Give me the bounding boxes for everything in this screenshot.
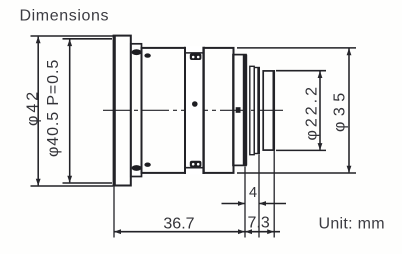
- ext vertical ring B face: [258, 155, 260, 238]
- main barrel (phi35 body): [142, 48, 234, 173]
- ext line phi42 top: [31, 35, 114, 37]
- ring B thick right edge: [257, 68, 260, 154]
- svg-text:φ35: φ35: [332, 87, 349, 132]
- ext line phi35 bottom: [237, 172, 356, 174]
- dim line 36.7 / 7.3: [114, 231, 280, 233]
- flange thick right edge: [243, 55, 247, 166]
- set screw S1 bottom: [132, 165, 142, 171]
- lens front rim (phi42 barrel): [114, 36, 131, 186]
- svg-text:φ42: φ42: [25, 89, 42, 126]
- set screw S2 bottom: [144, 163, 150, 167]
- C-mount thread barrel (phi22.2): [263, 71, 274, 150]
- focus ring (phi40.5 section): [131, 44, 142, 177]
- thread thick right edge: [273, 71, 275, 150]
- pin dot near slot: [192, 101, 198, 107]
- ext vertical flange face: [244, 167, 246, 238]
- svg-text:4: 4: [249, 185, 257, 201]
- set screw S2 top: [144, 53, 150, 57]
- ext line phi40.5 top: [63, 38, 113, 40]
- svg-text:Unit: mm: Unit: mm: [319, 216, 385, 233]
- svg-text:7.3: 7.3: [248, 215, 270, 232]
- svg-text:φ40.5 P=0.5: φ40.5 P=0.5: [45, 59, 62, 157]
- slot floor top: [185, 52, 204, 54]
- ext line phi40.5 bottom: [63, 182, 113, 184]
- slot left edge: [184, 47, 186, 174]
- slot right edge: [202, 47, 204, 174]
- rear ring A: [250, 66, 254, 154]
- rear ring B: [254, 68, 259, 154]
- dim line phi35: [348, 49, 350, 173]
- dim line phi22.2: [319, 71, 321, 150]
- svg-text:Dimensions: Dimensions: [20, 8, 110, 25]
- dim line phi40.5: [69, 39, 71, 182]
- ext vertical from lens front: [113, 187, 115, 238]
- centerline dot at flange: [236, 107, 241, 113]
- svg-text:36.7: 36.7: [163, 216, 194, 233]
- slot between rings: [185, 46, 204, 174]
- dim line phi42: [37, 37, 39, 186]
- slot floor bottom: [185, 167, 204, 169]
- clamp screw bottom (two holes): [190, 161, 202, 168]
- flange ring: [233, 55, 246, 166]
- ext vertical rear face: [273, 151, 275, 238]
- clamp screw top (two holes): [190, 53, 202, 60]
- ext line phi42 bottom: [31, 185, 114, 187]
- centerline (optical axis): [103, 109, 283, 111]
- dim line 4: [222, 203, 287, 205]
- ext line phi22.2 top: [276, 70, 326, 72]
- ext line phi22.2 bottom: [276, 149, 326, 151]
- svg-text:φ22.2: φ22.2: [304, 84, 321, 141]
- set screw S1 top: [132, 49, 142, 55]
- ext line phi35 top: [237, 47, 356, 49]
- front rim thick left edge: [113, 36, 116, 186]
